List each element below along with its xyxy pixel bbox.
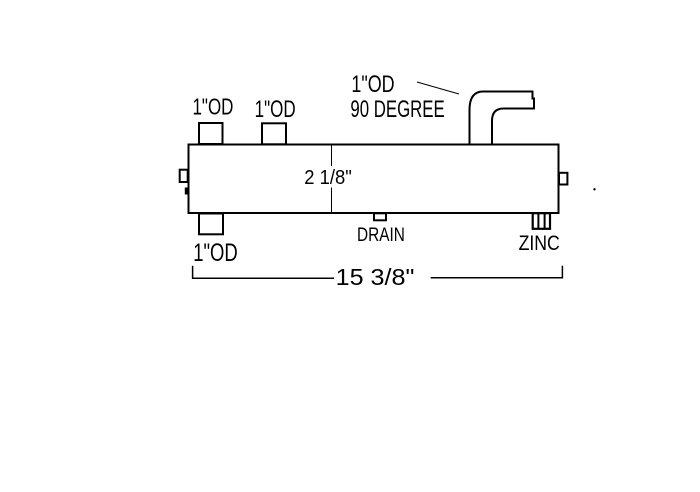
2 1/8 dimension vertical line upper segment <box>331 145 333 167</box>
svg-text:1"OD: 1"OD <box>351 72 394 98</box>
svg-text:1"OD: 1"OD <box>193 95 234 120</box>
port P2 top 1"OD <box>262 123 286 144</box>
svg-text:1"OD: 1"OD <box>193 238 238 266</box>
left end tab <box>180 170 188 182</box>
svg-text:ZINC: ZINC <box>519 231 560 255</box>
zinc hatch line 1 <box>537 213 539 229</box>
zinc hatch line 2 <box>544 213 546 229</box>
zinc anode fitting box <box>533 213 550 229</box>
dimension right tick <box>561 266 563 279</box>
svg-text:2 1/8": 2 1/8" <box>304 166 352 189</box>
port P3 bottom-left 1"OD <box>199 214 223 235</box>
leader line to pipe <box>417 82 459 94</box>
dimension left tick <box>192 266 194 279</box>
stray dot <box>593 188 595 190</box>
right end tab <box>559 173 567 185</box>
body tank rectangle <box>189 145 559 214</box>
svg-text:1"OD: 1"OD <box>255 96 296 122</box>
svg-text:15 3/8": 15 3/8" <box>336 265 415 291</box>
dimension line left segment 15 3/8 <box>193 277 334 279</box>
svg-text:90 DEGREE: 90 DEGREE <box>350 96 444 123</box>
port P1 top-left 1"OD <box>199 123 223 144</box>
dimension line right segment 15 3/8 <box>431 277 563 279</box>
drain fitting box <box>374 213 386 220</box>
svg-text:DRAIN: DRAIN <box>357 223 405 245</box>
2 1/8 dimension vertical line lower segment <box>331 188 333 213</box>
90 degree pipe elbow outline <box>470 92 535 144</box>
left edge thick mark <box>185 188 189 195</box>
